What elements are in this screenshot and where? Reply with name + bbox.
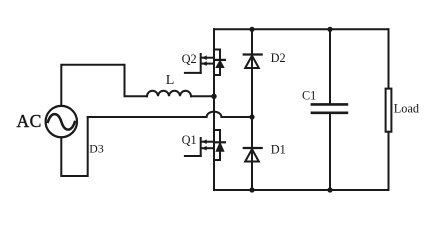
svg-text:D2: D2 bbox=[271, 51, 286, 65]
wire diode branch vertical bbox=[251, 29, 253, 190]
junction dot D1 bottom rail bbox=[249, 187, 254, 192]
svg-text:C1: C1 bbox=[302, 88, 316, 102]
resistor Load bbox=[386, 89, 392, 132]
junction dot L to switch node bbox=[211, 94, 216, 99]
svg-text:AC: AC bbox=[17, 111, 42, 131]
wire bottom rail bbox=[214, 189, 389, 191]
AC source bbox=[46, 106, 77, 137]
wire capacitor branch bbox=[329, 29, 331, 190]
wire inductor to switch node bbox=[191, 95, 214, 97]
wire AC top terminal to inductor bbox=[61, 65, 147, 106]
svg-text:Load: Load bbox=[394, 102, 419, 116]
wire AC return to diode node with crossover hop bbox=[88, 112, 252, 117]
diode D1 bbox=[244, 148, 262, 162]
svg-text:D1: D1 bbox=[271, 143, 286, 157]
svg-text:D3: D3 bbox=[89, 142, 104, 156]
junction dot C1 top rail bbox=[327, 27, 332, 32]
wire switch branch vertical bbox=[213, 29, 215, 190]
svg-text:L: L bbox=[166, 73, 175, 88]
transistor Q1 bbox=[185, 130, 225, 160]
wire AC bottom return bbox=[61, 117, 87, 176]
junction dot C1 bottom rail bbox=[327, 187, 332, 192]
junction dot D2 top rail bbox=[249, 27, 254, 32]
wire load branch bbox=[388, 29, 390, 190]
capacitor C1 bbox=[312, 104, 347, 112]
junction dot AC return to diode node bbox=[249, 114, 254, 119]
svg-text:Q1: Q1 bbox=[182, 133, 197, 147]
wire top rail bbox=[214, 28, 389, 30]
svg-text:Q2: Q2 bbox=[182, 52, 197, 66]
inductor L bbox=[147, 91, 191, 96]
diode D2 bbox=[244, 55, 262, 69]
transistor Q2 bbox=[185, 50, 225, 76]
